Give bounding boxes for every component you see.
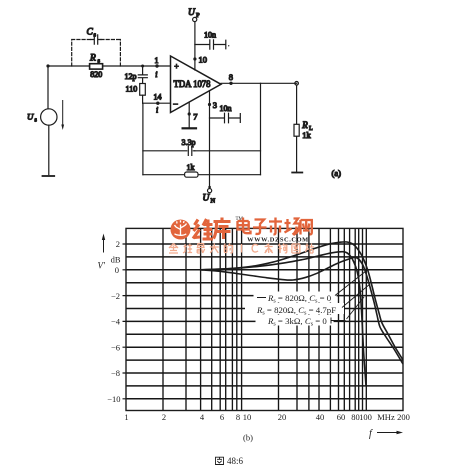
- svg-text:7: 7: [193, 112, 197, 122]
- watermark char dian: [238, 218, 251, 234]
- label 10n: [220, 104, 232, 113]
- svg-text:1k: 1k: [302, 130, 311, 140]
- svg-text:−2: −2: [111, 291, 120, 301]
- capacitor Cs dashed box: [72, 40, 121, 67]
- curve Rs=3k Cs=0: [200, 257, 403, 364]
- svg-text:MHz: MHz: [377, 412, 395, 422]
- svg-text:60: 60: [337, 412, 346, 422]
- label 10n: [204, 31, 216, 40]
- watermark logo disc: [171, 220, 191, 240]
- node pin 7: [188, 112, 198, 122]
- x axis labels: [124, 412, 410, 422]
- wire inverting feedback vertical: [142, 103, 144, 175]
- svg-text:0: 0: [115, 265, 119, 275]
- svg-text:10n: 10n: [220, 104, 232, 113]
- label 820: [90, 70, 102, 79]
- svg-text:−: −: [173, 99, 178, 109]
- label figure 48:6: [216, 456, 244, 466]
- svg-text:100: 100: [359, 412, 372, 422]
- wire 3.3p feedback: [143, 146, 261, 155]
- wire 1k feedback: [143, 174, 261, 176]
- current arrow at source: [61, 101, 64, 131]
- pin 10: [193, 55, 207, 65]
- watermark char chang: [285, 219, 300, 235]
- watermark char ku: [214, 218, 231, 240]
- ground under RL: [292, 172, 302, 174]
- node pin 8: [229, 72, 233, 85]
- voltage source Us: [41, 66, 57, 175]
- ground under source: [43, 175, 55, 177]
- svg-text:1: 1: [124, 412, 128, 422]
- svg-text:U: U: [188, 8, 196, 18]
- wire output drop: [260, 83, 262, 174]
- capacitor 10n (negative supply decoupling): [210, 113, 241, 123]
- svg-text:C: C: [87, 28, 94, 38]
- node 12p branch junction: [141, 65, 144, 68]
- svg-text:i: i: [155, 70, 157, 79]
- watermark dzsc url: [247, 236, 309, 243]
- svg-text:14: 14: [154, 93, 162, 102]
- watermark char shi: [269, 218, 282, 235]
- label U_P: [188, 8, 200, 19]
- label U_N: [203, 194, 216, 205]
- svg-text:P: P: [196, 12, 200, 19]
- svg-text:20: 20: [278, 412, 287, 422]
- svg-text:R: R: [89, 54, 96, 64]
- node pin 1: [155, 56, 159, 79]
- wire Up to pin 10: [194, 22, 196, 70]
- wire pin 14: [143, 102, 171, 104]
- svg-text:U: U: [203, 194, 211, 204]
- y axis arrow: [102, 234, 105, 253]
- svg-text:(b): (b): [243, 433, 253, 443]
- label 110: [126, 85, 138, 94]
- label U_s: [27, 112, 38, 124]
- svg-text:3: 3: [213, 100, 217, 110]
- leader line to curve 1: [335, 271, 366, 296]
- svg-text:10: 10: [199, 55, 208, 65]
- resistor 1k feedback: [185, 172, 198, 177]
- svg-text:dB: dB: [111, 255, 121, 265]
- svg-text:200: 200: [397, 412, 410, 422]
- wire output pin 8: [221, 82, 297, 84]
- svg-text:V′: V′: [98, 261, 106, 271]
- y axis labels: [107, 239, 121, 404]
- svg-text:+: +: [174, 62, 179, 71]
- svg-text:(a): (a): [332, 168, 342, 178]
- wire pin 7: [188, 102, 190, 128]
- op-amp U1 TDA 1078: [171, 56, 222, 113]
- svg-text:40: 40: [316, 412, 325, 422]
- svg-text:s: s: [94, 32, 97, 39]
- chart grid horizontal lines: [126, 244, 403, 399]
- svg-text:12p: 12p: [125, 72, 137, 81]
- svg-text:i: i: [156, 106, 158, 115]
- svg-text:8: 8: [236, 412, 240, 422]
- node output corner: [295, 82, 299, 86]
- resistor RL: [294, 124, 299, 136]
- svg-text:Rs = 820Ω, Cs = 4.7pF: Rs = 820Ω, Cs = 4.7pF: [256, 305, 336, 317]
- svg-text:820: 820: [90, 70, 102, 79]
- curve Rs=820 Cs=0: [200, 242, 403, 360]
- capacitor 12p: [138, 66, 147, 84]
- svg-text:10: 10: [243, 412, 252, 422]
- legend row 2 Rs=820 Cs=4.7pF: [256, 305, 336, 317]
- svg-text:3.3p: 3.3p: [182, 138, 196, 147]
- label (b): [243, 433, 253, 443]
- label R_s: [89, 54, 101, 65]
- wire load branch: [296, 85, 298, 172]
- leader line to curve 3: [347, 297, 365, 319]
- legend row 1 Rs=820 Cs=0: [257, 293, 332, 305]
- node source top junction: [46, 64, 49, 67]
- svg-text:10n: 10n: [204, 31, 216, 40]
- svg-text:110: 110: [126, 85, 138, 94]
- watermark char zi: [253, 220, 267, 234]
- label C_s: [87, 28, 97, 39]
- svg-text:−8: −8: [111, 368, 120, 378]
- svg-text:2: 2: [162, 412, 166, 422]
- legend row 3 Rs=3k Cs=0: [267, 316, 346, 328]
- chart grid vertical lines: [163, 228, 366, 410]
- svg-text:N: N: [211, 198, 216, 205]
- svg-text:6: 6: [220, 412, 224, 422]
- label V': [98, 261, 106, 271]
- label 1k: [187, 163, 195, 172]
- svg-text:Rs = 3kΩ, Cs = 0: Rs = 3kΩ, Cs = 0: [267, 316, 327, 328]
- legend background: [245, 292, 344, 326]
- node pin 14: [154, 93, 162, 115]
- svg-text:1: 1: [155, 56, 159, 65]
- wire pin 3 / negative supply: [209, 91, 211, 189]
- y axis ticks: [123, 244, 127, 399]
- chart frame: [126, 228, 403, 410]
- label f axis arrow: [369, 429, 403, 440]
- wire input node to pin 1: [48, 65, 171, 67]
- node pin 3: [208, 100, 217, 110]
- resistor Rs 820: [90, 64, 103, 69]
- watermark char wei: [193, 219, 213, 239]
- svg-text:4: 4: [200, 412, 205, 422]
- svg-text:WWW.DZSC.COM: WWW.DZSC.COM: [247, 236, 309, 243]
- ground under pin 7: [183, 127, 196, 129]
- svg-text:−4: −4: [111, 317, 121, 327]
- label 3.3p: [182, 138, 196, 147]
- svg-text:8: 8: [229, 72, 233, 82]
- svg-text:s: s: [35, 118, 38, 124]
- svg-text:Rs = 820Ω, Cs = 0: Rs = 820Ω, Cs = 0: [267, 293, 332, 305]
- watermark slogan row: [169, 244, 314, 254]
- svg-text:2: 2: [116, 239, 120, 249]
- svg-text:R: R: [301, 120, 308, 130]
- label R_L: [301, 120, 313, 140]
- svg-text:U: U: [27, 112, 34, 122]
- svg-text:−10: −10: [107, 394, 120, 404]
- svg-text:1k: 1k: [187, 163, 195, 172]
- svg-text:−6: −6: [111, 342, 120, 352]
- capacitor Cs plates: [91, 35, 101, 44]
- label 12p: [125, 72, 137, 81]
- node Un terminal: [208, 186, 212, 193]
- node Up terminal: [193, 17, 197, 21]
- watermark char wang: [301, 220, 312, 235]
- watermark TM: [236, 217, 244, 222]
- svg-text:48:6: 48:6: [227, 456, 244, 466]
- svg-text:f: f: [369, 429, 373, 440]
- capacitor 10n (positive supply decoupling): [195, 40, 230, 49]
- label (a): [332, 168, 342, 178]
- curve Rs=820 Cs=4.7pF: [200, 252, 366, 386]
- resistor 110: [140, 84, 146, 104]
- svg-text:TDA 1078: TDA 1078: [174, 80, 211, 90]
- leader line to curve 2: [342, 284, 370, 308]
